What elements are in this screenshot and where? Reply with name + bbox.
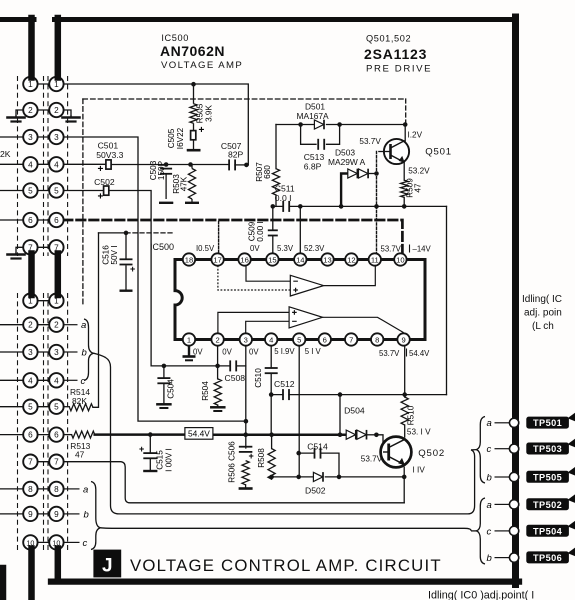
ground under C504: [157, 403, 170, 406]
connector g2 pin 6: [49, 427, 63, 441]
ground row2 left: [8, 116, 25, 122]
wire D502 line: [272, 476, 405, 478]
wire dashed box right edge: [405, 99, 407, 125]
wire C513 branch: [301, 125, 340, 145]
svg-text:1: 1: [54, 80, 59, 89]
connector pin 6: [23, 213, 37, 227]
connector g2 pin 4: [23, 373, 37, 387]
svg-text:6: 6: [28, 216, 33, 225]
wire left stub g2 row3: [0, 351, 30, 353]
wire pin3 vertical: [245, 345, 247, 448]
net label 54.4V box: [185, 428, 213, 440]
svg-text:R510: R510: [407, 405, 416, 425]
capacitor C505: [191, 131, 196, 140]
svg-text:b: b: [82, 348, 87, 359]
connector pin 1: [23, 77, 37, 91]
wire Q501 collector vert: [404, 125, 406, 142]
svg-text:53. I V: 53. I V: [407, 427, 431, 436]
op-amp U1a input wires: [246, 266, 290, 281]
connector g2 pin 1: [49, 294, 63, 308]
svg-text:C510: C510: [254, 368, 263, 388]
capacitor C511: [283, 201, 289, 212]
svg-text:Q502: Q502: [418, 448, 445, 459]
connector g2 pin 7: [23, 455, 37, 469]
resistor R507: [272, 169, 279, 195]
connector pin 2: [49, 103, 63, 117]
capacitor C504: [157, 378, 170, 383]
svg-text:7: 7: [54, 458, 59, 467]
svg-text:10: 10: [396, 255, 404, 264]
connector dashed outline col1 g1: [18, 76, 44, 256]
svg-text:MA29W A: MA29W A: [328, 157, 366, 167]
svg-text:7: 7: [349, 335, 353, 344]
wire link row2: [30, 109, 56, 111]
svg-text:0V: 0V: [193, 348, 203, 357]
svg-text:18: 18: [185, 255, 193, 264]
svg-text:11: 11: [371, 255, 379, 264]
resistor R510: [401, 397, 408, 425]
connector pin 4: [23, 157, 37, 171]
wire row7 long return: [64, 462, 405, 503]
resistor R505: [190, 104, 197, 124]
IC500 pins top row 18..10: [183, 253, 410, 345]
wire C504 stem: [163, 366, 165, 404]
svg-text:53.7V: 53.7V: [359, 137, 381, 146]
op-amp U1b input wires: [218, 312, 289, 334]
svg-text:PRE DRIVE: PRE DRIVE: [366, 64, 432, 75]
wire link row6: [30, 219, 56, 221]
connector g2 pin 6: [23, 427, 37, 441]
capacitor C512: [283, 389, 289, 400]
svg-text:53.7V: 53.7V: [379, 349, 400, 358]
wire Q501 base vertical: [376, 152, 378, 254]
svg-text:+: +: [98, 164, 104, 175]
svg-text:4: 4: [54, 376, 59, 385]
svg-text:R506 C506: R506 C506: [228, 441, 237, 483]
pin 14: [294, 253, 306, 265]
wire row2 gnd elbow left: [16, 110, 24, 116]
svg-text:4: 4: [28, 376, 33, 385]
capacitor C501: [106, 160, 111, 169]
wire g2 link row6: [30, 434, 56, 436]
wire left stub row6: [0, 219, 30, 221]
connector dashed outline col2 g1: [48, 76, 68, 256]
svg-text:C508: C508: [225, 373, 246, 383]
svg-text:47K: 47K: [180, 176, 189, 191]
diode D503 b: [359, 169, 369, 179]
connector pin 3: [49, 130, 63, 144]
pin 11: [369, 253, 381, 265]
wire TP brace2 stem: [471, 530, 476, 532]
border top left segment: [0, 17, 34, 22]
connector g2 pin 10: [49, 535, 63, 549]
connector g2 pin 3: [49, 345, 63, 359]
pin 13: [321, 253, 333, 265]
wire g2 link row8: [30, 488, 56, 490]
wire row3 net vertical: [64, 137, 246, 421]
wire bias dashed seg: [126, 232, 174, 234]
svg-text:IC500: IC500: [161, 33, 189, 43]
section J box: [93, 550, 121, 578]
svg-text:52.3V: 52.3V: [304, 244, 325, 253]
brace rows8-10: [91, 482, 100, 550]
capacitor C506: [239, 447, 253, 452]
op-amp U1b: [289, 307, 322, 328]
svg-text:TP506: TP506: [533, 553, 562, 563]
svg-text:50V3.3: 50V3.3: [96, 150, 123, 160]
wire R509 bottom: [403, 197, 405, 206]
svg-text:I0.5V: I0.5V: [196, 244, 215, 253]
connector g2 pin 3: [23, 345, 37, 359]
test point circle TP502: [509, 500, 518, 509]
pin 18: [183, 253, 195, 265]
wire left stub row5: [0, 190, 30, 192]
resistor R509: [401, 180, 408, 197]
wire D501 line: [276, 124, 406, 126]
svg-text:6: 6: [28, 431, 33, 440]
pointer wedge TP505: [568, 467, 575, 476]
ground row7 left: [8, 253, 25, 259]
left connector group1: [23, 77, 63, 550]
svg-text:3.9K: 3.9K: [205, 105, 214, 122]
wire left stub g2 row4: [0, 379, 30, 381]
pin 9: [397, 333, 409, 345]
pointer wedge TP501: [568, 413, 575, 422]
svg-text:Idling( IC0 )adj.point( I: Idling( IC0 )adj.point( I: [428, 590, 534, 600]
svg-text:C505: C505: [167, 128, 176, 148]
svg-text:c: c: [487, 526, 492, 537]
wire R506 bottom: [245, 485, 247, 488]
wire left stub g2 row9: [0, 513, 30, 515]
svg-text:6.8P: 6.8P: [304, 161, 322, 171]
svg-text:9: 9: [401, 335, 405, 344]
wire abc group1 letters: [64, 325, 80, 543]
svg-text:3: 3: [244, 335, 248, 344]
transistor Q502: [381, 437, 412, 468]
svg-text:C504: C504: [167, 379, 176, 399]
connector g2 pin 8: [49, 482, 63, 496]
connector pin 7: [49, 240, 63, 254]
test point circle TP506: [509, 553, 518, 562]
svg-text:2K: 2K: [0, 149, 11, 159]
ground bar under R506: [239, 487, 253, 490]
op-amp U1a output wire to pin11: [324, 266, 376, 286]
svg-text:adj. poin: adj. poin: [524, 308, 562, 319]
wire row5 net: [64, 191, 230, 366]
pin 3: [240, 333, 252, 345]
svg-text:47: 47: [75, 450, 85, 460]
svg-text:(L ch: (L ch: [532, 321, 554, 332]
svg-text:a: a: [81, 320, 86, 331]
svg-text:680: 680: [263, 165, 272, 179]
svg-text:16: 16: [240, 255, 248, 264]
wire g2 link row2: [30, 324, 56, 326]
svg-text:0V: 0V: [222, 348, 232, 357]
wire C514 line: [299, 453, 339, 477]
svg-text:50V I: 50V I: [110, 245, 119, 264]
wire -14V dashed rail row6: [64, 220, 403, 252]
svg-text:53.2V: 53.2V: [408, 167, 430, 176]
wire bias node line: [99, 232, 127, 234]
svg-text:53.7V: 53.7V: [361, 455, 383, 464]
border bottom left bar: [0, 568, 6, 600]
brace TP502 group: [476, 498, 485, 564]
border col2 bottom bar: [55, 549, 62, 579]
test point circle TP501: [509, 418, 518, 427]
ground row2 right: [63, 116, 80, 122]
svg-text:+: +: [139, 444, 144, 454]
diode D504 a: [346, 430, 356, 440]
svg-text:TP505: TP505: [533, 472, 562, 482]
connector pin 5: [23, 183, 37, 197]
svg-text:C511: C511: [275, 184, 295, 194]
svg-text:2: 2: [28, 321, 33, 330]
capacitor C507: [229, 159, 235, 170]
connector pin 6: [49, 213, 63, 227]
svg-text:b: b: [487, 553, 492, 564]
border col2 top bar: [55, 18, 62, 78]
svg-text:4: 4: [54, 160, 59, 169]
brace TP501 group: [476, 417, 485, 484]
wire left stub row4: [0, 163, 30, 165]
svg-text:I6V22: I6V22: [176, 127, 185, 149]
wire C509 stem: [272, 206, 274, 253]
svg-text:6: 6: [323, 335, 327, 344]
svg-text:a: a: [487, 418, 492, 429]
diode D504 b: [357, 430, 367, 440]
connector pin 2: [23, 103, 37, 117]
capacitor C503: [160, 169, 172, 174]
wire link row1: [30, 83, 56, 85]
resistor R504: [214, 379, 221, 405]
wire abc common down: [94, 353, 475, 514]
capacitor C514: [315, 448, 321, 459]
pointer wedge TP506: [568, 548, 575, 557]
svg-text:4: 4: [28, 160, 33, 169]
wire D503 left elbow: [341, 174, 348, 207]
svg-text:b: b: [487, 472, 492, 483]
svg-text:2SA1123: 2SA1123: [364, 46, 427, 62]
svg-text:AN7062N: AN7062N: [160, 43, 225, 59]
svg-text:0V: 0V: [249, 348, 259, 357]
wire R508 stem: [271, 435, 273, 480]
connector g2 pin 8: [23, 482, 37, 496]
connector pin 7: [23, 240, 37, 254]
wire C516 stem: [125, 233, 127, 290]
pointer wedge TP503: [568, 439, 575, 448]
resistor R503: [188, 169, 195, 200]
wire pin9 vertical: [404, 345, 406, 397]
connector pin 5: [49, 183, 63, 197]
svg-text:+: +: [199, 125, 205, 136]
svg-text:5: 5: [28, 187, 33, 196]
svg-text:5: 5: [297, 335, 301, 344]
svg-text:c: c: [83, 538, 88, 549]
wire left stub g2 row6: [0, 434, 30, 436]
resistor R513: [72, 431, 95, 438]
connector g2 pin 9: [49, 507, 63, 521]
wire link row7: [30, 246, 56, 248]
svg-text:TP504: TP504: [533, 526, 563, 536]
wire link row5: [30, 190, 56, 192]
wire R507 bottom: [275, 195, 277, 206]
svg-text:5: 5: [54, 187, 59, 196]
connector pin 4: [49, 157, 63, 171]
svg-text:8: 8: [54, 485, 59, 494]
wire g2 link row3: [30, 351, 56, 353]
svg-text:Idling( IC: Idling( IC: [522, 294, 562, 305]
wire row1 net: [64, 84, 249, 165]
svg-text:0V: 0V: [250, 244, 260, 253]
svg-text:a: a: [487, 500, 492, 511]
svg-text:3: 3: [54, 348, 59, 357]
wire left stub g2 row2: [0, 324, 30, 326]
svg-text:+: +: [249, 451, 254, 461]
ground under pin1: [188, 346, 190, 356]
border right: [512, 17, 519, 585]
svg-text:8: 8: [375, 335, 379, 344]
wire dashed box top: [83, 98, 406, 100]
svg-text:C514: C514: [307, 442, 328, 452]
svg-text:c: c: [487, 444, 492, 455]
svg-text:2: 2: [54, 321, 59, 330]
svg-text:8: 8: [28, 485, 33, 494]
connector dashed outline col2 g2: [48, 293, 68, 551]
svg-text:5: 5: [54, 403, 59, 412]
svg-text:15: 15: [268, 255, 276, 264]
diode D502: [313, 472, 323, 482]
wire row7 gnd elbow left: [16, 247, 24, 253]
pin 15: [266, 253, 278, 265]
svg-text:0.0 I: 0.0 I: [275, 193, 292, 203]
connector g2 pin 4: [49, 373, 63, 387]
wire right riser: [446, 206, 448, 394]
border col1 mid bar: [28, 254, 35, 296]
label a b c g2 rows2-4: [81, 320, 89, 549]
capacitor C513: [318, 139, 324, 150]
svg-text:2: 2: [54, 106, 59, 115]
svg-text:a: a: [83, 484, 88, 495]
svg-text:0.00 I: 0.00 I: [256, 221, 265, 242]
wire R504 bottom: [217, 405, 219, 407]
test point circle TP504: [509, 526, 518, 535]
wire g2 link row9: [30, 513, 56, 515]
connector g2 pin 5: [23, 400, 37, 414]
C505 bottom bar: [187, 140, 201, 150]
wire row4 line cont: [111, 164, 229, 166]
wire g2 link row5: [30, 406, 56, 408]
wire C508 line right: [237, 365, 246, 367]
wire pin5 vertical: [298, 345, 300, 477]
svg-text:47: 47: [414, 183, 423, 193]
svg-text:J: J: [102, 556, 113, 577]
border top main: [55, 17, 516, 22]
pin 5: [293, 333, 305, 345]
wire R510 bottom: [404, 425, 406, 437]
svg-text:I IV: I IV: [413, 466, 426, 475]
wire D503 right link: [368, 173, 376, 175]
capacitor C515: [143, 453, 157, 458]
capacitor C516: [120, 259, 133, 264]
svg-text:5: 5: [28, 403, 33, 412]
svg-text:82P: 82P: [228, 150, 244, 160]
wire link row3: [30, 136, 56, 138]
border col1 top bar: [28, 18, 35, 78]
connector g2 pin 5: [49, 400, 63, 414]
svg-text:+: +: [130, 264, 135, 274]
svg-text:1: 1: [28, 80, 33, 89]
wire g2 link row7: [30, 461, 56, 463]
diode D501: [314, 120, 324, 130]
wire pin14 vertical: [299, 206, 301, 253]
svg-text:R508: R508: [257, 448, 266, 468]
svg-text:3: 3: [28, 133, 33, 142]
wire left stub row3: [0, 136, 30, 138]
svg-text:54.4V: 54.4V: [188, 429, 210, 439]
svg-text:82K: 82K: [72, 396, 87, 406]
test point circle TP503: [509, 444, 518, 453]
test point circle TP505: [509, 472, 518, 481]
svg-text:c: c: [81, 376, 86, 387]
svg-text:3: 3: [54, 133, 59, 142]
wire C515 stem: [149, 435, 151, 470]
capacitor C509: [268, 230, 278, 235]
wire Q502 base entry: [376, 435, 387, 452]
connector g2 pin 7: [49, 455, 63, 469]
resistor R506: [242, 461, 249, 485]
capacitor C502: [104, 186, 109, 195]
svg-text:54.4V: 54.4V: [409, 349, 430, 358]
svg-text:2: 2: [215, 335, 219, 344]
svg-text:53.7V: 53.7V: [381, 245, 402, 254]
pin 4: [265, 333, 277, 345]
pointer wedge TP504: [568, 521, 575, 530]
svg-text:I.2V: I.2V: [408, 131, 423, 140]
svg-text:D504: D504: [344, 406, 365, 416]
svg-text:VOLTAGE AMP: VOLTAGE AMP: [161, 60, 243, 71]
wire C507 line right: [235, 164, 248, 166]
svg-text:R505: R505: [196, 103, 205, 123]
wire Q502 emitter vert: [403, 467, 405, 503]
wire row4 line: [64, 163, 106, 165]
diode D503 a: [348, 169, 358, 179]
connector g2 pin 10: [23, 535, 37, 549]
svg-text:9: 9: [54, 510, 59, 519]
pin 16: [238, 253, 250, 265]
svg-text:+: +: [98, 192, 104, 203]
wire abc2 common right: [100, 528, 471, 531]
pin 12: [345, 253, 357, 265]
connector g2 pin 1: [23, 294, 37, 308]
connector g2 pin 9: [23, 507, 37, 521]
capacitor C508: [230, 360, 236, 371]
connector pin 3: [23, 130, 37, 144]
svg-text:Q501,502: Q501,502: [366, 34, 411, 44]
wire R514 left: [64, 406, 70, 408]
wire rail R513 to box: [95, 433, 185, 436]
svg-text:13: 13: [323, 255, 331, 264]
pin 17: [211, 253, 223, 265]
border bottom: [51, 578, 519, 584]
border col2 mid bar: [55, 254, 62, 296]
capacitor C510: [265, 368, 278, 373]
wire g2 link row1: [30, 300, 56, 302]
wire link row4: [30, 163, 56, 165]
wire dashed box left: [82, 99, 84, 305]
border col1 bottom bar: [28, 549, 35, 600]
svg-text:5 I V: 5 I V: [305, 347, 322, 356]
connector dashed outline col1 g2: [18, 293, 44, 551]
